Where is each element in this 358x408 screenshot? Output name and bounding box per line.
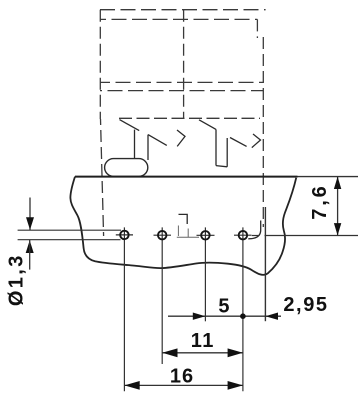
hole row centerline dash bbox=[252, 235, 258, 237]
housing left edge (dashed) bbox=[99, 10, 101, 119]
16 left arrowhead bbox=[124, 381, 139, 390]
dia 1,3 dimension lower lead line bbox=[29, 240, 31, 270]
16 dimension line bbox=[124, 384, 242, 386]
contact 1 busbar vertical bbox=[147, 135, 149, 160]
housing middle divider (dashed) bbox=[183, 10, 185, 119]
11 dimension line bbox=[162, 352, 243, 354]
svg-text:5: 5 bbox=[218, 295, 229, 317]
7,6 upper arrowhead bbox=[334, 177, 341, 189]
svg-text:2,95: 2,95 bbox=[283, 294, 328, 316]
hole 4 horizontal center tick bbox=[234, 234, 252, 236]
contact 2 busbar diagonal bbox=[230, 138, 247, 147]
contact 2 pin right side bbox=[226, 138, 228, 167]
solder pin outline below hole 3 bbox=[179, 214, 188, 224]
housing right inner edge (dashed) bbox=[256, 19, 258, 38]
drill hole 1 bbox=[120, 231, 128, 240]
pin faint bottom edge bbox=[177, 236, 199, 238]
svg-text:11: 11 bbox=[191, 330, 215, 352]
16 right arrowhead bbox=[228, 381, 243, 390]
hole 1 lower tangent extension line bbox=[18, 239, 121, 241]
2,95 left-pointing arrowhead bbox=[265, 313, 278, 320]
drill hole 3 bbox=[201, 231, 210, 240]
dia 1,3 lower arrowhead bbox=[26, 240, 34, 253]
hole 1 upper tangent extension line bbox=[18, 229, 121, 231]
svg-text:16: 16 bbox=[170, 365, 194, 387]
contact 2 spring angle bbox=[252, 134, 261, 148]
PCB break outline (left, bottom, right wavy) bbox=[70, 177, 296, 275]
7,6 lower arrowhead bbox=[334, 223, 341, 235]
11 right arrowhead bbox=[228, 348, 243, 357]
PCB top surface extension line bbox=[298, 176, 358, 178]
hole 3 horizontal center tick bbox=[197, 234, 215, 236]
drill hole 4 bbox=[239, 231, 248, 240]
5 and 2,95 dimension line bbox=[168, 315, 281, 317]
dimension dot at hole 4 bbox=[240, 313, 246, 319]
hole row centerline extension right bbox=[265, 235, 358, 237]
dia 1,3 dimension upper lead line bbox=[29, 198, 31, 231]
housing mating face line 1 (dashed) bbox=[100, 81, 263, 83]
hole 3 center/extension line bbox=[204, 227, 206, 321]
hole 4 center/extension line bbox=[242, 227, 244, 391]
contact 1 vertical leg bbox=[134, 130, 136, 159]
solder bead pill bbox=[105, 159, 148, 177]
contact 2 pin left side bbox=[215, 129, 217, 165]
contact 1 clamp spring diagonal bbox=[120, 120, 140, 131]
drill hole 2 bbox=[158, 231, 167, 240]
2,95 reference extension line bbox=[264, 207, 266, 321]
hole 1 center/extension line bbox=[123, 227, 125, 391]
contact 1 spring angle bbox=[177, 130, 185, 146]
7,6 dimension line bbox=[337, 177, 339, 236]
pin faint left edge bbox=[177, 226, 179, 237]
hole 1 horizontal center tick bbox=[116, 234, 133, 236]
housing top inner edge (dashed) bbox=[100, 18, 257, 20]
svg-text:Ø1,3: Ø1,3 bbox=[6, 253, 28, 306]
housing left edge below board (dashed) bbox=[101, 119, 104, 236]
housing top outer edge (dashed) bbox=[100, 9, 266, 11]
contact 2 pin bottom bbox=[216, 166, 227, 167]
PCB top surface bbox=[75, 176, 298, 178]
hole 2 horizontal center tick bbox=[154, 234, 172, 236]
hole 2 center/extension line bbox=[161, 227, 163, 364]
svg-text:7,6: 7,6 bbox=[309, 183, 331, 219]
11 left arrowhead bbox=[162, 348, 177, 357]
contact 1 busbar diagonal bbox=[148, 135, 167, 146]
housing right outer edge (dashed) bbox=[262, 37, 264, 227]
housing mating face line 2 (dashed) bbox=[100, 90, 263, 92]
contact 2 clamp spring diagonal bbox=[199, 120, 216, 130]
fillet corner near hole 4 bbox=[248, 221, 260, 239]
5 dimension right-pointing arrowhead at hole 3 bbox=[193, 313, 206, 320]
dia 1,3 upper arrowhead bbox=[26, 217, 34, 230]
contact chamber top edge (dashed) bbox=[119, 117, 260, 119]
pin faint right edge bbox=[187, 229, 189, 238]
